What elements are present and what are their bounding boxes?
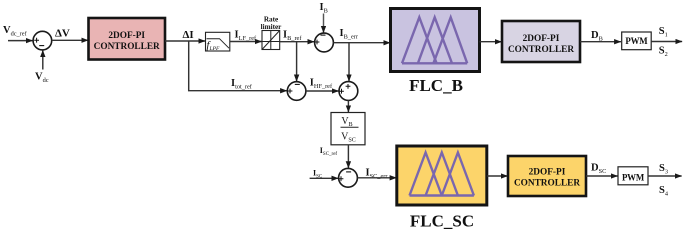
svg-text:CONTROLLER: CONTROLLER: [94, 42, 160, 52]
svg-text:Vdc: Vdc: [35, 72, 49, 85]
svg-text:2DOF-PI: 2DOF-PI: [529, 168, 566, 178]
svg-text:IB_ref: IB_ref: [283, 29, 302, 42]
wire ΔV to controller: [52, 39, 88, 41]
wire FLC_B to controller: [480, 41, 502, 43]
node V_dc: [35, 50, 49, 84]
node I_SC: [310, 169, 339, 180]
controller block U3 2DOF-PI (yellow): [508, 156, 586, 196]
node I_B: [320, 2, 328, 33]
wire ΔI: [165, 40, 205, 42]
svg-text:IB: IB: [320, 2, 328, 15]
svg-text:S3: S3: [659, 163, 668, 176]
svg-text:DB: DB: [591, 30, 603, 43]
wire I_SC_err to FLC_SC: [357, 177, 396, 179]
summing junction S0: [33, 31, 52, 50]
svg-text:S2: S2: [659, 46, 668, 59]
gain block V_B/V_SC: [331, 113, 365, 145]
wire I_HF_ref to summer S2: [306, 90, 339, 92]
svg-text:FLC_B: FLC_B: [409, 76, 463, 95]
PWM block row2: [618, 167, 648, 185]
wire V_dc_ref to summer: [8, 40, 33, 42]
FLC_B block (fuzzy logic controller, lavender): [391, 9, 480, 72]
svg-text:FLC_SC: FLC_SC: [410, 212, 474, 231]
svg-text:DSC: DSC: [591, 163, 606, 176]
wire f_LPF to rate limiter: [230, 41, 262, 43]
svg-text:ΔV: ΔV: [55, 28, 70, 40]
svg-text:ILF_ref: ILF_ref: [235, 29, 257, 42]
svg-text:Vdc_ref: Vdc_ref: [3, 25, 28, 38]
svg-text:CONTROLLER: CONTROLLER: [514, 179, 580, 189]
wire PWM outputs S3 S4: [648, 175, 682, 177]
svg-text:Itot_ref: Itot_ref: [231, 78, 253, 91]
svg-text:IHF_ref: IHF_ref: [310, 77, 333, 90]
wire branch down to I_tot: [189, 41, 287, 91]
wire PWM outputs S1 S2: [651, 41, 682, 43]
filter block f_LPF: [206, 32, 230, 52]
summing junction HF: [287, 82, 306, 101]
wire D_B to PWM: [580, 41, 621, 43]
summing junction S3: [339, 168, 358, 187]
wire VB/VSC to summer S3: [347, 145, 349, 168]
wire I_B_err to FLC_B: [333, 42, 390, 44]
FLC_SC block (fuzzy logic controller, yellow): [397, 146, 487, 205]
svg-text:2DOF-PI: 2DOF-PI: [523, 34, 560, 44]
svg-text:2DOF-PI: 2DOF-PI: [108, 31, 145, 41]
svg-text:IB_err: IB_err: [340, 28, 359, 41]
membership triangles FLC_SC: [410, 194, 474, 196]
wire branch I_B_ref down to HF summer: [296, 42, 298, 82]
svg-text:S4: S4: [659, 185, 669, 198]
rate limiter block: [261, 16, 283, 50]
controller block U1 2DOF-PI (pink): [89, 18, 166, 60]
svg-text:limiter: limiter: [261, 23, 283, 31]
wire S2 down to VB/VSC block: [347, 100, 349, 112]
svg-text:ΔI: ΔI: [183, 29, 194, 41]
svg-text:PWM: PWM: [622, 172, 645, 182]
membership triangles FLC_B: [402, 62, 467, 64]
summing junction S1 (battery error): [315, 33, 334, 52]
PWM block row1: [622, 32, 652, 50]
wire D_SC to PWM: [586, 175, 618, 177]
summing junction S2: [339, 82, 358, 101]
svg-text:PWM: PWM: [625, 36, 648, 46]
wire branch I_B_err down to summer S2: [348, 43, 350, 81]
wire FLC_SC to controller: [487, 175, 508, 177]
controller block U2 2DOF-PI (lavender): [502, 21, 580, 62]
svg-text:CONTROLLER: CONTROLLER: [508, 45, 574, 55]
wire rate limiter to summer S1: [280, 41, 315, 43]
svg-text:ISC_ref: ISC_ref: [320, 146, 338, 157]
svg-text:S1: S1: [659, 26, 668, 39]
